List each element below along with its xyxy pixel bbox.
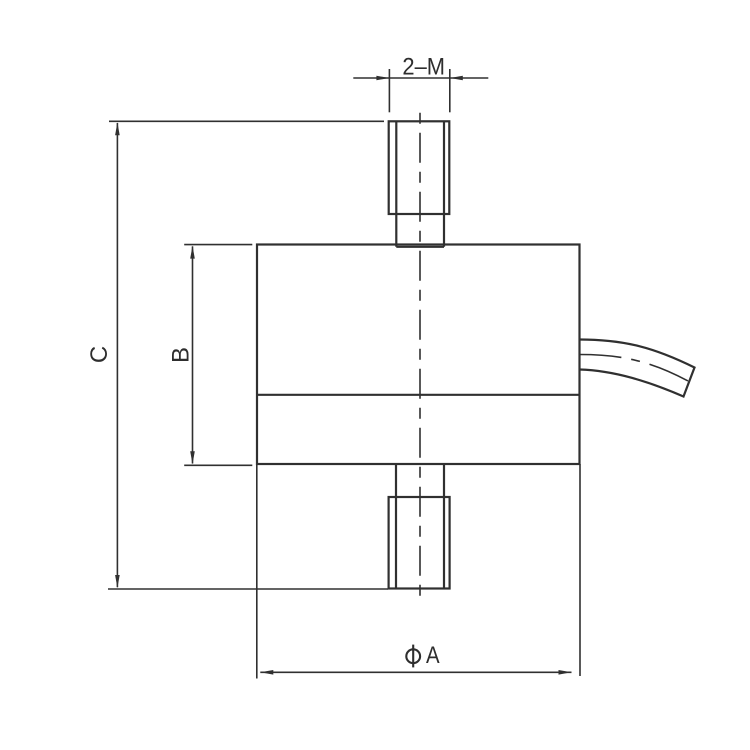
svg-text:2–M: 2–M [402,54,445,81]
svg-text:A: A [426,642,440,669]
svg-text:B: B [168,347,195,363]
svg-text:C: C [86,346,113,363]
